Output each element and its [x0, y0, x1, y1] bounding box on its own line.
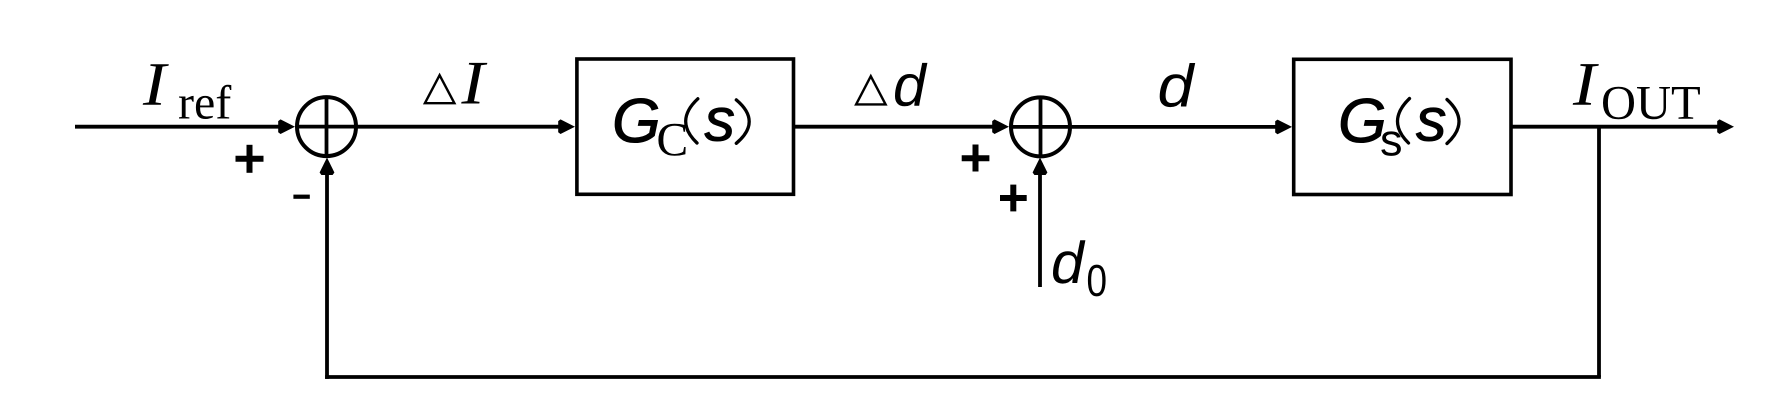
plus sign at S2 bottom [1000, 185, 1027, 212]
plus sign at S2 left [962, 145, 990, 172]
wire d0 input [1033, 158, 1048, 288]
wire input Iref [75, 119, 295, 134]
label delta I [425, 63, 487, 104]
label GC(s) [615, 98, 749, 155]
plus sign at summing junction S1 [236, 145, 264, 173]
wire S1 to block GC [356, 119, 575, 134]
label GS(s) [1341, 98, 1459, 155]
label Iout [1573, 64, 1700, 119]
summing junction S2 [1011, 97, 1070, 156]
block GS(s) [1294, 59, 1511, 194]
wire feedback bottom segment [325, 375, 1601, 379]
wire feedback down segment [1597, 127, 1601, 377]
label d [1160, 63, 1196, 107]
wire GC to summing junction S2 [794, 119, 1010, 134]
wire output Iout [1511, 119, 1734, 134]
label delta d [856, 63, 927, 106]
label d0 [1053, 240, 1106, 296]
wire S2 to block GS [1070, 120, 1292, 135]
label Iref [143, 64, 232, 119]
block GC(s) [577, 59, 794, 194]
summing junction S1 [297, 97, 356, 156]
wire feedback up segment to S1 [320, 158, 335, 379]
minus sign at summing junction S1 [293, 195, 309, 199]
